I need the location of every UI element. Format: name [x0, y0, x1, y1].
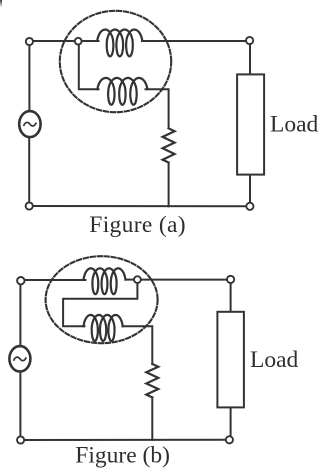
load (figure a): [237, 74, 264, 174]
wire: figure a lower coil to resistor branch: [146, 89, 169, 128]
node: figure a top-left junction: [26, 38, 33, 45]
wire: figure b top-right node to load: [230, 280, 232, 311]
wire: figure a top-right node to load: [249, 41, 251, 73]
wire: figure a resistor to bottom rail: [168, 163, 170, 207]
wire: figure b tap node to top-right node: [137, 279, 230, 281]
wire: figure b tap step (node down, left, down to lower coil): [63, 280, 137, 327]
wire: figure b bottom rail: [20, 439, 230, 441]
node: figure a top-right junction: [246, 37, 253, 44]
node: figure b top-right junction: [227, 276, 234, 283]
wire: figure b top coil to tap node: [126, 279, 138, 281]
wire: figure a top coil to top-right node: [142, 40, 250, 42]
inductor L1 (figure b upper winding): [84, 268, 126, 294]
wire: figure a left branch (source branch lower): [28, 137, 30, 206]
node: figure a bottom-right junction: [246, 203, 253, 210]
node: figure a transformer tap junction: [75, 38, 82, 45]
transformer boundary (dashed circle, figure a): [60, 11, 171, 112]
resistor (figure b): [146, 364, 158, 397]
wire: figure b lower coil to resistor branch: [123, 326, 153, 364]
node: figure b bottom-left junction: [17, 436, 24, 443]
wire: figure a tap node down to lower coil: [79, 41, 99, 89]
corner artifact mark: [0, 0, 2, 8]
node: figure b transformer tap junction: [134, 276, 141, 283]
ac source (figure a): [19, 111, 40, 137]
wire: figure a left branch (source branch upper): [28, 41, 30, 112]
load (figure b): [217, 312, 244, 408]
wire: figure b left branch (source branch upper): [19, 280, 21, 346]
wire: figure a top, left node to tap node: [29, 40, 78, 42]
svg-text:Figure (b): Figure (b): [75, 443, 170, 469]
wire: figure b load to bottom-right node: [230, 408, 232, 439]
wire: figure a tap node to top coil: [78, 40, 98, 42]
wire: figure b top, left node to top coil: [21, 279, 86, 281]
resistor (figure a): [163, 128, 175, 162]
node: figure a bottom-left junction: [26, 202, 33, 209]
node: figure b top-left junction: [17, 277, 24, 284]
inductor L1 (figure a upper winding): [97, 30, 142, 57]
wire: figure a load to bottom-right node: [249, 176, 251, 207]
wire: figure a bottom rail: [29, 205, 250, 207]
svg-text:Load: Load: [250, 347, 299, 373]
ac source (figure b): [9, 346, 30, 371]
wire: figure b left branch (source branch lower): [19, 371, 21, 440]
wire: figure b resistor to bottom rail: [151, 397, 153, 439]
inductor L2 (figure a lower winding): [97, 78, 147, 105]
node: figure b bottom-right junction: [226, 436, 233, 443]
transformer boundary (dashed circle, figure b): [46, 256, 158, 343]
svg-text:Figure (a): Figure (a): [89, 212, 186, 238]
inductor L2 (figure b lower winding): [84, 315, 123, 341]
svg-text:Load: Load: [270, 112, 319, 138]
